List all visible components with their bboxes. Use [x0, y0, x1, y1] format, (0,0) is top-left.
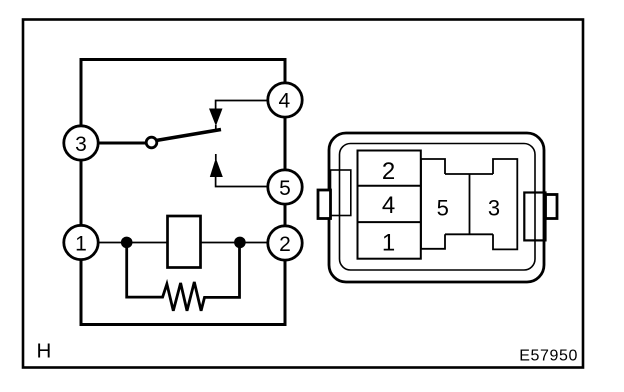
- switch pivot: [146, 137, 157, 148]
- cavity 5 bottom bridge: [445, 233, 493, 235]
- svg-text:1: 1: [75, 232, 87, 255]
- pin 3: [64, 126, 98, 160]
- right lock tab outer: [546, 195, 558, 219]
- svg-text:2: 2: [382, 158, 395, 185]
- svg-text:2: 2: [279, 233, 291, 256]
- relay case: [81, 60, 285, 325]
- wire from pin 1 to pin 2 through coil: [95, 242, 270, 244]
- up arrow (NC contact): [215, 154, 217, 160]
- terminal cavity 5 outline: [421, 159, 445, 249]
- wire from up arrow to pin 5: [216, 177, 268, 187]
- wire from pin 4 to down arrow: [216, 101, 268, 110]
- wire from pin 3 to switch pivot: [95, 142, 147, 145]
- svg-text:1: 1: [382, 229, 395, 256]
- left lock tab outer: [318, 190, 331, 219]
- pin 4: [268, 83, 302, 117]
- resistor (parallel with coil): [127, 242, 240, 310]
- cavity 5 top bridge: [445, 173, 493, 175]
- cavity divider wall: [469, 174, 471, 234]
- junction right: [234, 237, 246, 249]
- down arrow (NO contact): [209, 109, 223, 127]
- terminal cavity column (pins 2/4/1): [358, 151, 421, 259]
- svg-text:4: 4: [382, 192, 395, 219]
- connector housing inner wall: [340, 144, 536, 271]
- svg-text:H: H: [37, 340, 52, 363]
- svg-text:3: 3: [488, 196, 500, 221]
- junction left: [121, 237, 133, 249]
- connector housing outer shell: [329, 133, 544, 282]
- svg-text:5: 5: [279, 177, 291, 200]
- pin 5: [268, 170, 302, 204]
- svg-text:5: 5: [437, 196, 449, 221]
- svg-text:E57950: E57950: [519, 348, 578, 365]
- svg-text:3: 3: [75, 133, 87, 156]
- relay coil L1: [168, 216, 201, 268]
- left lock tab inner plate: [331, 170, 351, 216]
- pin 2: [268, 226, 302, 260]
- svg-text:4: 4: [278, 90, 290, 113]
- right lock tab inner plate: [524, 193, 545, 241]
- pin 1: [64, 225, 98, 259]
- terminal cavity 3 outline: [493, 159, 517, 249]
- switch blade: [156, 130, 221, 141]
